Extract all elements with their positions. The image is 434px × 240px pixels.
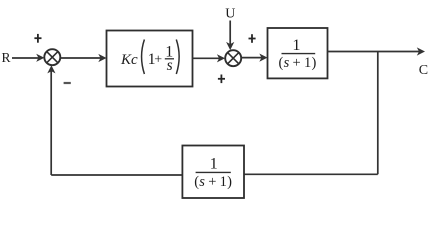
block G2 rectangle xyxy=(268,28,328,78)
svg-text:s: s xyxy=(167,57,173,74)
feedback wire right segment xyxy=(244,173,378,175)
svg-text:1: 1 xyxy=(210,154,218,173)
feedback tap vertical wire xyxy=(377,52,379,175)
wire S2 to block G2 xyxy=(241,57,263,59)
arrowhead into S1 from below xyxy=(47,65,55,73)
sign - below S1 xyxy=(64,82,71,84)
block H1 rectangle xyxy=(182,146,244,199)
wire U to summer S2 xyxy=(229,21,231,47)
sign + above S1 xyxy=(34,34,41,43)
block G1 formula Kc(1+1/s) xyxy=(120,40,179,75)
wire G1 to summer S2 xyxy=(193,57,222,59)
arrowhead into S2 xyxy=(217,54,225,62)
summing junction S1 xyxy=(44,49,60,65)
feedback vertical wire up to S1 xyxy=(50,70,52,176)
svg-text:1: 1 xyxy=(292,35,300,54)
svg-text:Kc: Kc xyxy=(120,52,138,68)
svg-text:(s + 1): (s + 1) xyxy=(194,174,232,190)
block G2 formula 1/(s+1) xyxy=(279,35,317,71)
arrowhead into S2 from top xyxy=(226,42,234,50)
svg-text:C: C xyxy=(419,63,428,78)
block G1 rectangle xyxy=(107,31,193,87)
summing junction S2 xyxy=(225,50,241,66)
arrowhead into G1 xyxy=(98,54,106,62)
wire S1 to block G1 xyxy=(60,57,102,59)
block H1 formula 1/(s+1) xyxy=(194,154,232,191)
wire R to summer S1 xyxy=(12,57,41,59)
output wire from G2 xyxy=(328,51,421,53)
sign + right of G1 below wire xyxy=(218,75,225,84)
svg-text:(s + 1): (s + 1) xyxy=(279,55,317,71)
svg-text:U: U xyxy=(225,6,235,21)
arrowhead into G2 xyxy=(259,54,267,62)
svg-text:+: + xyxy=(154,53,162,68)
svg-text:R: R xyxy=(2,50,11,65)
feedback wire left segment xyxy=(51,174,182,176)
sign + right of U arrow xyxy=(249,34,256,43)
arrowhead into summer S1 xyxy=(36,54,44,62)
arrowhead output C xyxy=(417,47,425,55)
